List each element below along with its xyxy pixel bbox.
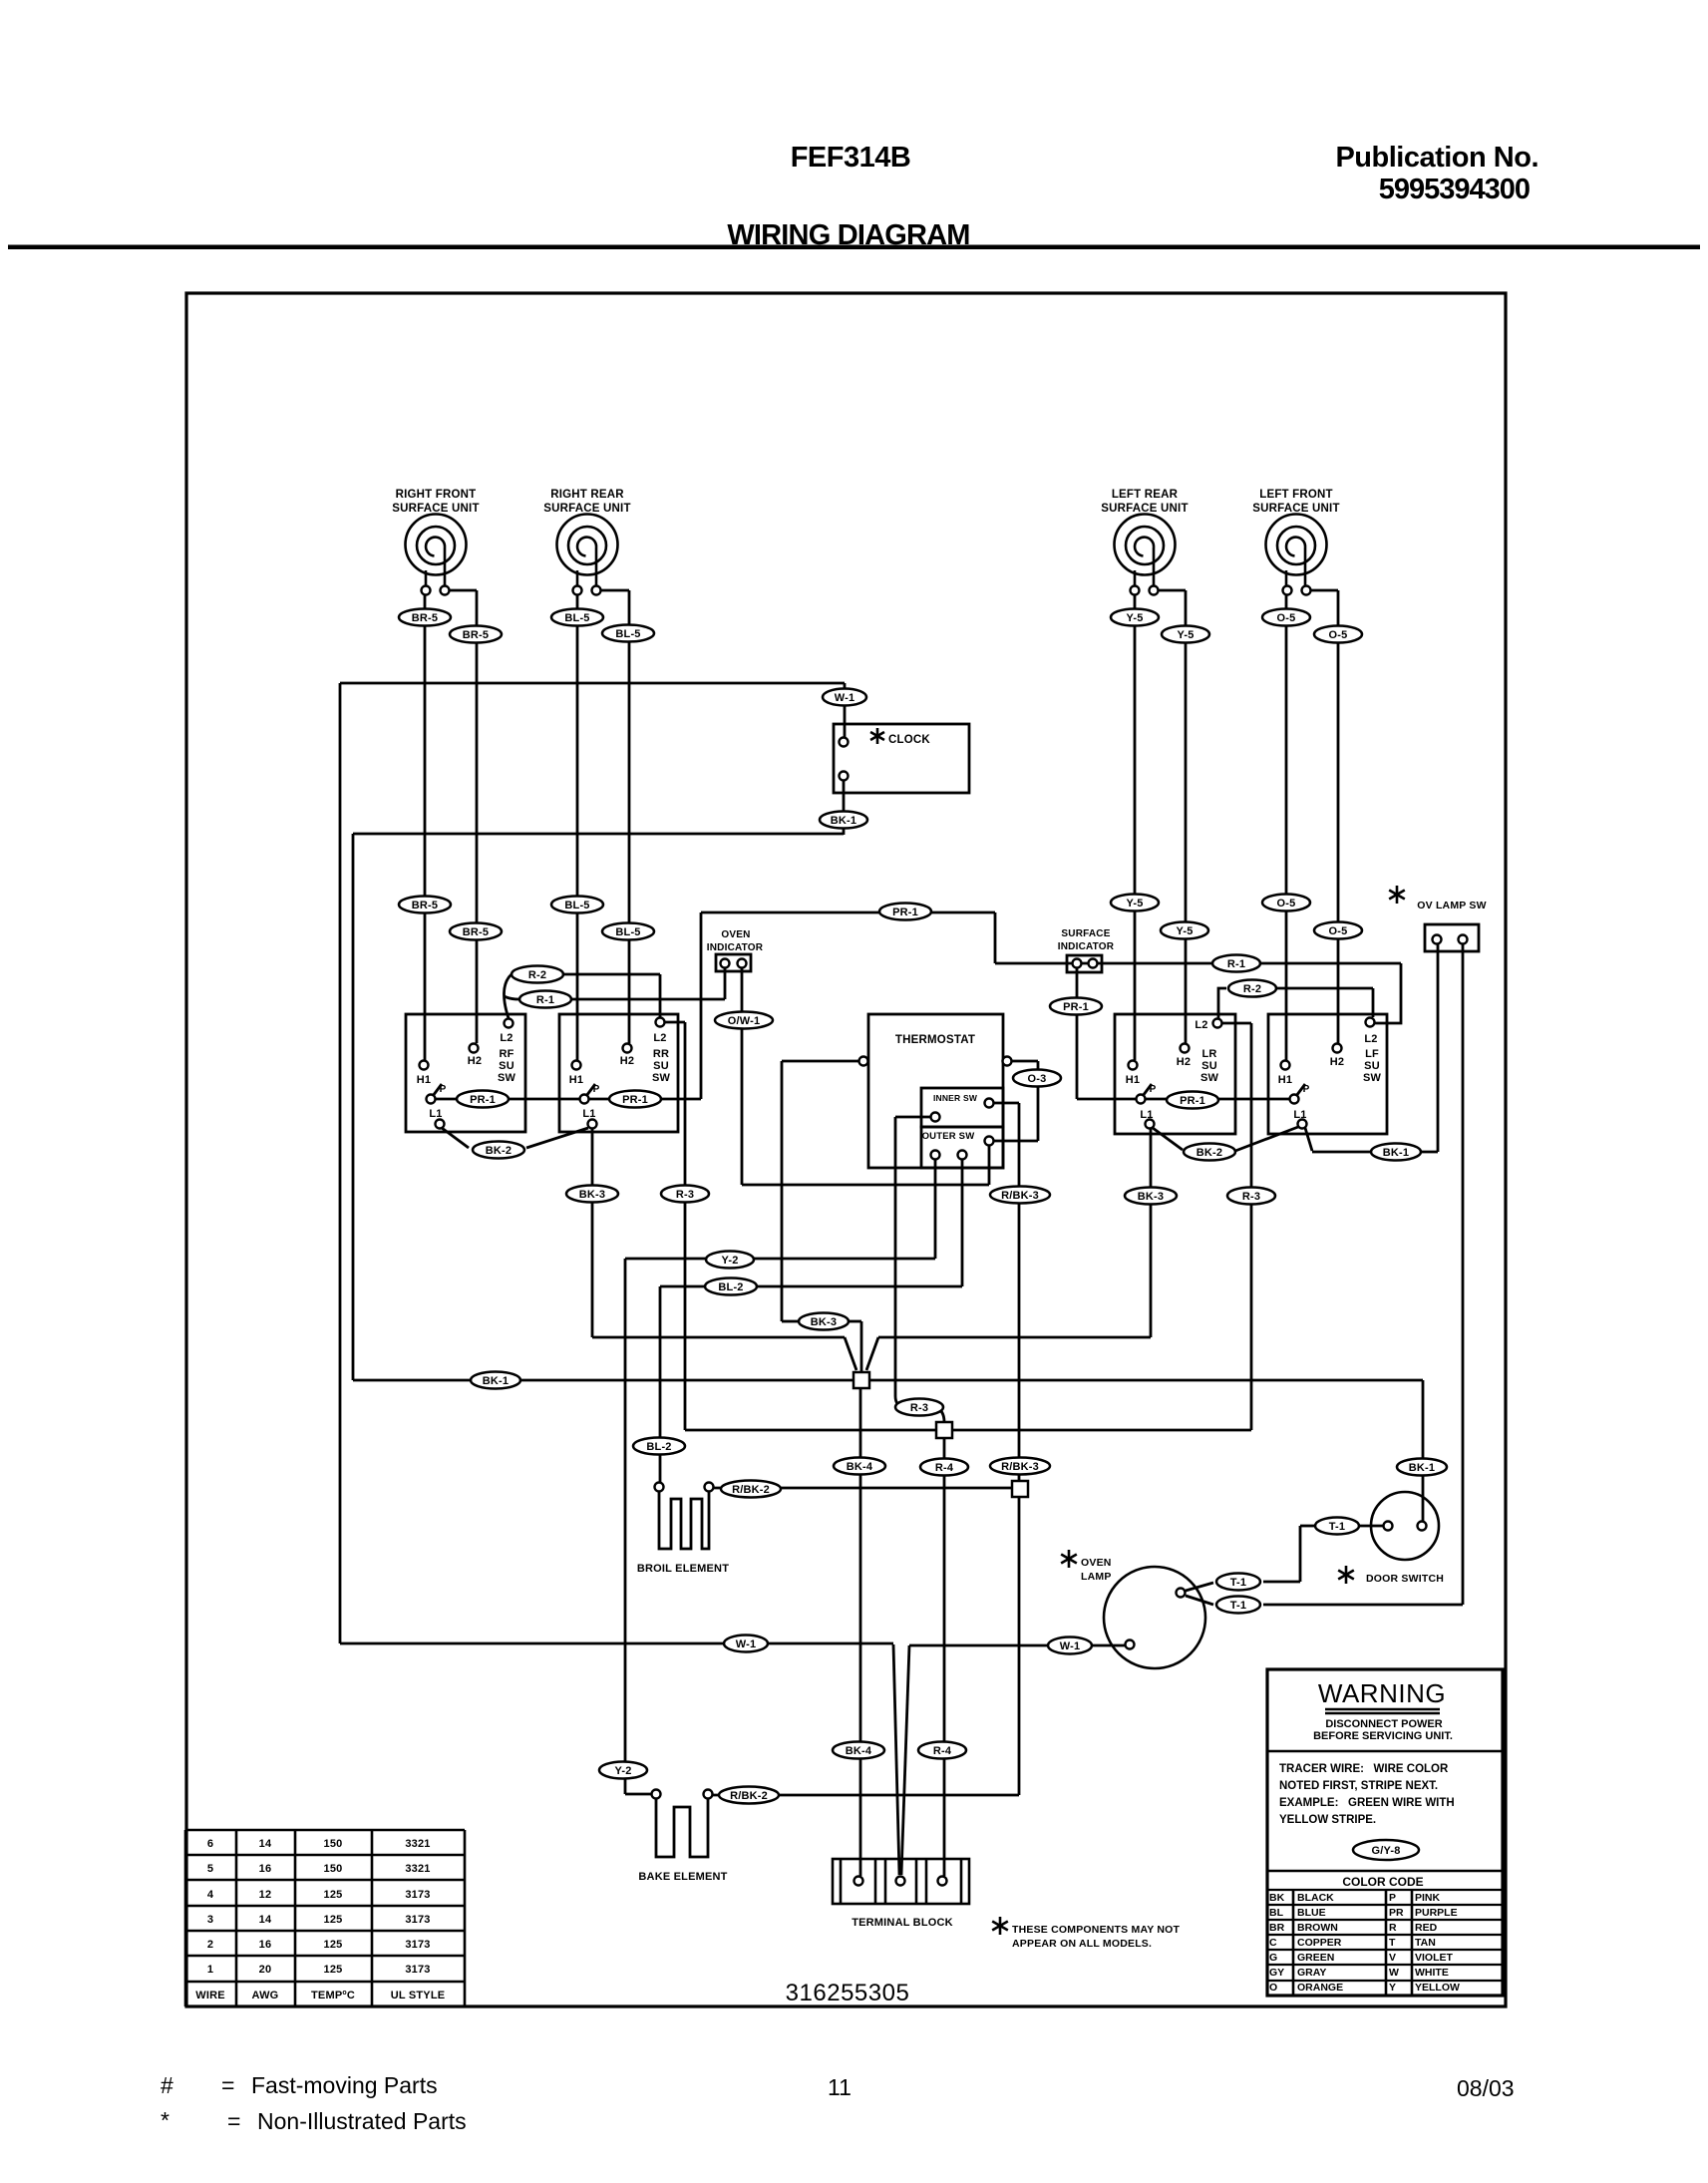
svg-text:H1: H1 <box>569 1074 583 1086</box>
svg-text:C: C <box>1269 1937 1277 1949</box>
svg-text:125: 125 <box>324 1964 343 1976</box>
svg-text:BLUE: BLUE <box>1297 1907 1326 1919</box>
asterisk marker clock <box>870 728 884 744</box>
wire label BL-2 <box>705 1278 757 1295</box>
svg-text:PR-1: PR-1 <box>1063 1001 1089 1013</box>
wire label PR-1 <box>1050 998 1102 1015</box>
svg-text:3321: 3321 <box>405 1863 430 1875</box>
svg-text:RIGHT FRONT: RIGHT FRONT <box>396 489 477 501</box>
svg-text:BL-5: BL-5 <box>615 628 640 640</box>
wire label BL-5 <box>602 625 654 642</box>
svg-text:3: 3 <box>207 1914 213 1926</box>
svg-text:Fast-moving Parts: Fast-moving Parts <box>251 2072 438 2098</box>
wire BL-2 horizontal <box>660 1285 962 1288</box>
svg-text:LR: LR <box>1201 1048 1216 1060</box>
wire label W-1 <box>823 689 866 706</box>
svg-text:SURFACE UNIT: SURFACE UNIT <box>392 503 479 515</box>
svg-text:Publication No.: Publication No. <box>1335 142 1538 174</box>
svg-text:3173: 3173 <box>405 1889 430 1901</box>
svg-text:08/03: 08/03 <box>1457 2075 1515 2101</box>
wire T-1 stub to door switch <box>1359 1525 1384 1528</box>
wire BK-1 diagonal from LF L1 <box>1305 1128 1312 1151</box>
svg-text:Non-Illustrated Parts: Non-Illustrated Parts <box>257 2108 467 2134</box>
wire T-1 stub to label <box>1300 1525 1315 1528</box>
wire BL-5 right drop RR <box>628 590 631 1043</box>
left rear surface unit coil <box>1115 515 1176 587</box>
RR switch terminal H2 <box>623 1044 632 1053</box>
asterisk marker door switch <box>1338 1566 1354 1584</box>
svg-text:P: P <box>1303 1084 1310 1095</box>
terminal block terminal middle <box>896 1877 905 1886</box>
oven indicator terminal left <box>721 959 730 968</box>
svg-text:6: 6 <box>207 1838 213 1850</box>
right rear surface unit coil <box>557 515 618 587</box>
wire BK-3 horizontal left <box>592 1336 845 1339</box>
svg-text:SW: SW <box>652 1072 671 1084</box>
svg-text:LEFT REAR: LEFT REAR <box>1112 489 1179 501</box>
svg-text:PR-1: PR-1 <box>622 1094 648 1106</box>
svg-text:COLOR CODE: COLOR CODE <box>1342 1875 1423 1889</box>
svg-text:SU: SU <box>499 1060 514 1072</box>
svg-text:12: 12 <box>259 1889 272 1901</box>
svg-text:=: = <box>227 2108 240 2134</box>
LF switch terminal L1 <box>1298 1120 1307 1129</box>
wire label BK-4 <box>834 1458 885 1475</box>
svg-text:14: 14 <box>259 1914 272 1926</box>
terminal block <box>833 1859 969 1904</box>
wire BK-3 label to corner <box>848 1320 861 1323</box>
svg-text:O/W-1: O/W-1 <box>728 1015 761 1027</box>
wire O-5 right drop LF <box>1337 590 1340 1043</box>
svg-text:NOTED FIRST, STRIPE NEXT.: NOTED FIRST, STRIPE NEXT. <box>1279 1780 1438 1792</box>
svg-text:FEF314B: FEF314B <box>791 142 911 174</box>
svg-text:150: 150 <box>324 1863 343 1875</box>
wire label R/BK-2 <box>721 1481 781 1498</box>
svg-text:R-1: R-1 <box>1227 958 1245 970</box>
wire O-5 left drop LF <box>1285 595 1288 1060</box>
svg-text:125: 125 <box>324 1889 343 1901</box>
asterisk marker oven lamp <box>1061 1550 1077 1568</box>
LF coil terminal H2 <box>1302 586 1311 595</box>
wire PR-1 riser <box>700 912 703 1099</box>
wire label Y-5 <box>1162 626 1209 643</box>
wire BK-1 clock horizontal <box>353 833 844 836</box>
wire BK-1 left vertical <box>352 834 355 1380</box>
wire W-1 stub to label <box>844 683 847 690</box>
wire label R/BK-2 <box>719 1787 779 1804</box>
wire label BK-3 <box>799 1313 849 1330</box>
LR coil terminal H1 <box>1131 586 1140 595</box>
oven lamp switch box <box>1425 924 1479 951</box>
svg-text:RIGHT REAR: RIGHT REAR <box>550 489 624 501</box>
wire label BK-1 <box>471 1372 520 1389</box>
wire W-1 drop to terminal block left leg <box>893 1644 899 1875</box>
svg-text:R-4: R-4 <box>935 1462 954 1474</box>
wire label BK-1 <box>1397 1459 1447 1476</box>
svg-text:Y-2: Y-2 <box>721 1255 738 1267</box>
wire BL-2 vertical to broil element <box>659 1286 662 1482</box>
svg-text:Y-5: Y-5 <box>1126 898 1143 910</box>
svg-text:4: 4 <box>207 1889 214 1901</box>
svg-text:BK: BK <box>1269 1892 1285 1904</box>
wire LR switch lever <box>1143 1084 1152 1096</box>
svg-text:W: W <box>1389 1967 1399 1979</box>
wire Y-2 drop from outer switch <box>934 1160 937 1259</box>
RF surface unit switch box <box>406 1014 525 1132</box>
svg-text:BK-2: BK-2 <box>486 1145 512 1157</box>
oven lamp <box>1104 1567 1205 1668</box>
surface indicator terminal left <box>1073 959 1082 968</box>
wire label PR-1 <box>457 1091 509 1108</box>
svg-text:W-1: W-1 <box>835 692 855 704</box>
svg-text:R/BK-2: R/BK-2 <box>732 1484 770 1496</box>
right front surface unit coil <box>406 515 467 587</box>
svg-text:R: R <box>1389 1922 1397 1934</box>
svg-text:RR: RR <box>653 1048 669 1060</box>
svg-text:*: * <box>161 2107 170 2133</box>
wire label R/BK-3 <box>990 1187 1050 1204</box>
wire Y-5 left drop LR <box>1134 595 1137 1060</box>
wire O-3 vertical <box>1037 1061 1040 1141</box>
wire R-1 / PR-1 horizontal through surface indicator <box>995 962 1401 965</box>
svg-text:Y: Y <box>1389 1982 1396 1994</box>
wire label Y-5 <box>1161 922 1208 939</box>
wire gauge table <box>185 1830 465 2006</box>
RF switch terminal P <box>427 1095 436 1104</box>
wire label W-1 <box>724 1636 768 1652</box>
wire label R-2 <box>1228 980 1276 997</box>
svg-text:T: T <box>1389 1937 1396 1949</box>
svg-text:SURFACE: SURFACE <box>1061 928 1110 939</box>
wire label BR-5 <box>450 626 502 643</box>
oven lamp switch terminal right <box>1459 935 1468 944</box>
svg-text:YELLOW STRIPE.: YELLOW STRIPE. <box>1279 1814 1376 1826</box>
svg-text:R-3: R-3 <box>1242 1191 1260 1203</box>
clock terminal bottom <box>840 772 849 781</box>
wire BK-3 corner into junction <box>860 1321 863 1371</box>
wire label BK-1 <box>1371 1144 1421 1161</box>
svg-text:L2: L2 <box>653 1032 666 1044</box>
RR coil terminal H1 <box>573 586 582 595</box>
wire label G/Y-8 <box>1353 1840 1419 1860</box>
svg-text:L1: L1 <box>1293 1109 1306 1121</box>
wire BK-2 diagonal to RR L1 <box>526 1128 588 1148</box>
wire label BL-5 <box>551 897 603 913</box>
wire label R-1 <box>1212 955 1260 972</box>
svg-text:AWG: AWG <box>252 1990 279 2001</box>
svg-text:P: P <box>1150 1084 1157 1095</box>
svg-text:=: = <box>221 2072 234 2098</box>
wire label R-3 <box>661 1186 709 1203</box>
wire BK-2 diagonal from RF L1 <box>442 1128 469 1148</box>
svg-text:GREEN: GREEN <box>1297 1952 1334 1964</box>
svg-text:BK-1: BK-1 <box>483 1375 509 1387</box>
wire label BK-4 <box>833 1742 884 1759</box>
svg-text:T-1: T-1 <box>1230 1577 1247 1589</box>
surface indicator box <box>1067 955 1102 972</box>
wire R-3 long horizontal <box>685 1429 1251 1432</box>
svg-text:BROWN: BROWN <box>1297 1922 1338 1934</box>
inner switch terminal right <box>985 1099 994 1108</box>
svg-text:BL-5: BL-5 <box>564 612 589 624</box>
svg-text:T-1: T-1 <box>1329 1521 1346 1533</box>
terminal block terminal left <box>854 1877 863 1886</box>
wire label T-1 <box>1315 1518 1359 1535</box>
svg-text:LEFT FRONT: LEFT FRONT <box>1259 489 1333 501</box>
wire BK-1 horizontal to riser <box>1312 1151 1438 1154</box>
junction square on R/BK-2 line <box>1012 1481 1028 1497</box>
wire PR-1 lower horizontal RF-RR <box>431 1098 701 1101</box>
svg-text:H1: H1 <box>417 1074 431 1086</box>
wire Y-5 right drop LR <box>1185 590 1188 1043</box>
svg-text:BK-1: BK-1 <box>1383 1147 1409 1159</box>
door switch <box>1371 1492 1439 1560</box>
inner switch terminal left <box>931 1113 940 1122</box>
svg-text:PR: PR <box>1389 1907 1404 1919</box>
warning box <box>1267 1669 1503 1996</box>
wire PR-1 lower horizontal LR-LF <box>1077 1098 1289 1101</box>
svg-text:INDICATOR: INDICATOR <box>707 942 764 953</box>
svg-text:5995394300: 5995394300 <box>1379 174 1530 205</box>
wire label R-1 <box>519 991 571 1008</box>
LF switch terminal L2 <box>1366 1018 1375 1027</box>
svg-text:P: P <box>593 1084 600 1095</box>
svg-text:BK-2: BK-2 <box>1196 1147 1222 1159</box>
svg-text:WARNING: WARNING <box>1318 1678 1446 1708</box>
RR switch terminal P <box>580 1095 589 1104</box>
svg-text:O-5: O-5 <box>1277 898 1296 910</box>
wire R-3 left vertical <box>684 1022 687 1430</box>
wire W-1 bottom horizontal right to oven lamp <box>909 1644 1126 1647</box>
RR switch terminal H1 <box>572 1061 581 1070</box>
svg-text:3173: 3173 <box>405 1914 430 1926</box>
svg-text:G: G <box>1269 1952 1277 1964</box>
svg-text:BK-4: BK-4 <box>847 1461 873 1473</box>
wire W-1 drop to terminal block right leg <box>901 1645 909 1875</box>
svg-text:BLACK: BLACK <box>1297 1892 1334 1904</box>
svg-text:L1: L1 <box>1140 1109 1153 1121</box>
svg-text:SW: SW <box>1363 1072 1382 1084</box>
wire label R-2 <box>512 966 563 983</box>
wire label BL-5 <box>602 923 654 940</box>
wire O/W-1 riser to outer switch <box>988 1146 991 1185</box>
wire PR-1 top horizontal <box>701 911 995 914</box>
svg-text:WIRE: WIRE <box>195 1990 225 2001</box>
svg-text:R/BK-2: R/BK-2 <box>730 1790 768 1802</box>
wire BK-3 stub into label <box>782 1320 798 1323</box>
svg-text:ORANGE: ORANGE <box>1297 1982 1343 1994</box>
svg-text:BK-3: BK-3 <box>811 1316 837 1328</box>
wire W-1 label to clock terminal <box>844 704 847 738</box>
wire R-2 horizontal to LF L2 <box>1277 987 1373 990</box>
wire T-1 horizontal upper <box>1263 1581 1300 1584</box>
svg-text:L2: L2 <box>500 1032 512 1044</box>
wire label PR-1 <box>879 904 931 920</box>
wire label BK-3 <box>566 1186 618 1203</box>
svg-text:INDICATOR: INDICATOR <box>1058 941 1115 952</box>
wire label BK-2 <box>1184 1144 1235 1161</box>
junction square on R-3 line <box>936 1422 952 1438</box>
wire Y-2 long vertical <box>624 1259 627 1794</box>
wire R-1 branch from RF L2 curve <box>505 996 519 999</box>
svg-text:SU: SU <box>653 1060 669 1072</box>
svg-text:316255305: 316255305 <box>786 1980 910 2006</box>
wire label R-3 <box>1227 1188 1275 1205</box>
broil element terminal left <box>655 1483 664 1492</box>
wire BK-3 thermostat vertical <box>781 1061 784 1321</box>
wire label PR-1 <box>1167 1092 1218 1109</box>
LR switch terminal H1 <box>1129 1061 1138 1070</box>
svg-text:R-3: R-3 <box>676 1189 694 1201</box>
svg-text:R/BK-3: R/BK-3 <box>1001 1190 1039 1202</box>
svg-text:GY: GY <box>1269 1967 1284 1979</box>
svg-text:3173: 3173 <box>405 1939 430 1951</box>
wire label O-3 <box>1013 1070 1061 1087</box>
RR coil terminal H2 <box>592 586 601 595</box>
svg-text:SURFACE UNIT: SURFACE UNIT <box>1252 503 1339 515</box>
svg-text:DISCONNECT POWER: DISCONNECT POWER <box>1325 1718 1442 1730</box>
svg-text:Y-5: Y-5 <box>1126 612 1143 624</box>
wire BK-2 diagonal from LR L1 <box>1153 1128 1183 1150</box>
LF surface unit switch box <box>1268 1014 1387 1134</box>
wire label R/BK-3 <box>990 1458 1050 1475</box>
wire R-4 vertical to terminal block <box>943 1439 946 1876</box>
wire inner switch left stub <box>895 1116 930 1119</box>
thermostat terminal left <box>859 1057 868 1066</box>
bake element <box>656 1799 708 1857</box>
wire BK-1 clock terminal to label <box>843 781 846 812</box>
svg-text:P: P <box>1389 1892 1396 1904</box>
wire BL-5 left drop RR <box>576 595 579 1060</box>
wire RF switch lever <box>433 1084 442 1096</box>
asterisk marker non-illustrated note <box>992 1917 1008 1935</box>
svg-text:BK-4: BK-4 <box>846 1745 872 1757</box>
wire O-3 stub from thermostat <box>1011 1060 1038 1063</box>
outer switch terminal bottom right <box>958 1151 967 1160</box>
RF switch terminal L2 <box>505 1019 513 1028</box>
LF switch terminal H1 <box>1281 1061 1290 1070</box>
wire label O-5 <box>1262 895 1310 911</box>
svg-text:16: 16 <box>259 1863 272 1875</box>
svg-text:BR-5: BR-5 <box>463 926 489 938</box>
svg-text:OUTER SW: OUTER SW <box>922 1131 975 1142</box>
svg-text:PR-1: PR-1 <box>1180 1095 1205 1107</box>
svg-text:BEFORE SERVICING UNIT.: BEFORE SERVICING UNIT. <box>1313 1730 1453 1742</box>
thermostat box <box>868 1014 1003 1168</box>
svg-text:TEMPoC: TEMPoC <box>311 1990 355 2001</box>
wire label BR-5 <box>450 923 502 940</box>
svg-text:BL-5: BL-5 <box>615 926 640 938</box>
svg-text:#: # <box>161 2072 173 2098</box>
outer switch terminal bottom left <box>931 1151 940 1160</box>
svg-text:BROIL ELEMENT: BROIL ELEMENT <box>637 1563 729 1575</box>
svg-text:Y-5: Y-5 <box>1176 925 1193 937</box>
wire BL-5 jog RR <box>600 589 629 592</box>
wire RR switch lever <box>586 1084 595 1096</box>
wire R-3 curve vertical <box>895 1117 904 1407</box>
svg-text:BR: BR <box>1269 1922 1285 1934</box>
wire R-1 horizontal to oven indicator <box>570 998 725 1001</box>
oven lamp terminal left <box>1126 1640 1135 1649</box>
wire W-1 left vertical <box>339 683 342 1643</box>
broil element <box>659 1492 709 1549</box>
svg-text:DOOR SWITCH: DOOR SWITCH <box>1366 1573 1444 1585</box>
svg-text:14: 14 <box>259 1838 272 1850</box>
clock box <box>834 724 969 793</box>
wire PR-1 drop to surface indicator <box>994 912 997 963</box>
svg-text:GRAY: GRAY <box>1297 1967 1326 1979</box>
LR switch terminal L1 <box>1146 1120 1155 1129</box>
wire R-3 right vertical <box>1250 1023 1253 1430</box>
wire R-1 drop to LF L2 <box>1375 963 1401 1023</box>
svg-text:BK-3: BK-3 <box>579 1189 605 1201</box>
wire label BR-5 <box>399 897 451 913</box>
svg-text:R-2: R-2 <box>1243 983 1261 995</box>
svg-text:BR-5: BR-5 <box>463 629 489 641</box>
LF switch terminal P <box>1290 1095 1299 1104</box>
svg-text:LAMP: LAMP <box>1081 1571 1112 1583</box>
svg-text:H1: H1 <box>1278 1074 1292 1086</box>
wire label O-5 <box>1314 922 1362 939</box>
svg-text:THESE COMPONENTS MAY NOT: THESE COMPONENTS MAY NOT <box>1012 1924 1181 1936</box>
svg-text:O-5: O-5 <box>1277 612 1296 624</box>
svg-text:LF: LF <box>1365 1048 1379 1060</box>
svg-text:R-1: R-1 <box>536 994 554 1006</box>
svg-text:1: 1 <box>207 1964 213 1976</box>
svg-text:TRACER WIRE: WIRE COLOR: TRACER WIRE: WIRE COLOR <box>1279 1763 1449 1775</box>
wire label BK-3 <box>1125 1188 1177 1205</box>
svg-text:O-5: O-5 <box>1329 629 1348 641</box>
wire W-1 bottom horizontal left <box>340 1642 893 1645</box>
door switch terminal right <box>1418 1522 1427 1531</box>
wire BK-3 horizontal right <box>878 1336 1151 1339</box>
oven indicator terminal right <box>738 959 747 968</box>
wire T-1 riser <box>1299 1526 1302 1582</box>
wire BR-5 right drop RF <box>476 590 479 1043</box>
wire R-3 stub from RR L2 <box>665 1021 685 1024</box>
wire label BL-2 <box>633 1438 685 1455</box>
svg-text:TERMINAL BLOCK: TERMINAL BLOCK <box>852 1917 953 1929</box>
svg-text:BL: BL <box>1269 1907 1284 1919</box>
wire label Y-2 <box>706 1252 754 1269</box>
diagram border frame <box>186 293 1506 2006</box>
svg-text:L2: L2 <box>1195 1019 1207 1031</box>
svg-text:BR-5: BR-5 <box>412 900 438 911</box>
oven lamp switch terminal left <box>1433 935 1442 944</box>
wire Y-2 stub to bake element <box>625 1793 651 1796</box>
svg-text:BK-1: BK-1 <box>1409 1462 1435 1474</box>
wire R-2 drop to LF L2 <box>1372 988 1375 1017</box>
asterisk marker ov lamp sw <box>1389 886 1405 904</box>
wire BK-3 vertical from RR L1 <box>591 1128 594 1337</box>
wire R-3 curve into junction <box>935 1407 944 1422</box>
wire label R-3 <box>895 1399 943 1416</box>
svg-text:R-4: R-4 <box>933 1745 952 1757</box>
svg-text:O-5: O-5 <box>1329 925 1348 937</box>
svg-text:BK-1: BK-1 <box>831 815 856 827</box>
svg-text:5: 5 <box>207 1863 213 1875</box>
svg-text:PINK: PINK <box>1415 1892 1441 1904</box>
wire R-2 drop to RR L2 <box>659 974 662 1017</box>
wire BL-2 drop from outer switch <box>961 1160 964 1286</box>
wire label Y-2 <box>599 1762 647 1779</box>
svg-text:Y-5: Y-5 <box>1177 629 1194 641</box>
broil element terminal right <box>705 1483 714 1492</box>
wire label BK-1 <box>820 812 867 829</box>
svg-text:L2: L2 <box>1364 1033 1377 1045</box>
svg-text:H2: H2 <box>1177 1056 1191 1068</box>
wire BK-3 vertical from LR L1 <box>1150 1128 1153 1337</box>
